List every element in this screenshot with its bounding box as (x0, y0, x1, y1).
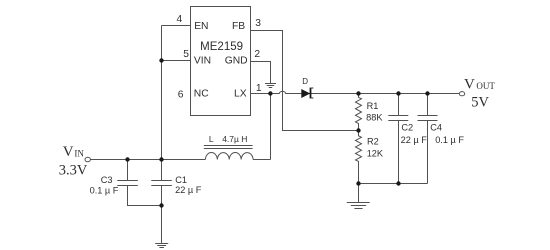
svg-text:3.3V: 3.3V (59, 162, 88, 178)
capacitor C3 plates (117, 180, 138, 182)
capacitor C2 plates (388, 115, 408, 117)
svg-text:0.1 µ F: 0.1 µ F (435, 135, 464, 145)
diode D1 triangle (301, 89, 310, 98)
capacitor C4 top lead (427, 94, 429, 116)
node junction R2 bottom (356, 181, 360, 185)
svg-text:C4: C4 (430, 122, 442, 132)
node junction C3 on rail (125, 157, 129, 161)
svg-text:22 µ F: 22 µ F (401, 135, 428, 145)
wire pin2 GND (251, 62, 271, 84)
ground under R2 (347, 203, 370, 209)
capacitor C2 bottom lead (398, 121, 400, 184)
terminal Vout circle (459, 92, 464, 96)
inductor L core bars (204, 145, 253, 147)
wire pin4 EN (162, 25, 191, 27)
svg-text:LX: LX (234, 89, 247, 100)
svg-text:L: L (209, 134, 214, 144)
wire pin3 FB (251, 31, 359, 131)
svg-text:D: D (302, 77, 308, 86)
svg-text:88K: 88K (366, 112, 383, 122)
node junction R1 top (356, 91, 360, 95)
wire pin5 VIN (162, 60, 191, 62)
ground at pin2 GND (265, 84, 276, 88)
svg-text:VIN: VIN (194, 56, 211, 67)
ground under C1 (155, 244, 168, 248)
node junction C4 top (425, 91, 429, 95)
capacitor C1 bottom lead (161, 186, 163, 244)
capacitor C3 bottom lead (128, 186, 162, 206)
svg-text:C3: C3 (101, 175, 113, 185)
svg-text:5V: 5V (471, 94, 489, 110)
wire rail inductor to LX riser (253, 159, 270, 161)
svg-text:3: 3 (255, 18, 261, 29)
svg-text:R2: R2 (367, 137, 379, 147)
svg-text:C2: C2 (401, 122, 413, 132)
svg-text:ME2159: ME2159 (200, 41, 243, 53)
svg-text:C1: C1 (175, 175, 187, 185)
svg-text:4.7µ H: 4.7µ H (222, 134, 247, 144)
svg-text:0.1 µ F: 0.1 µ F (90, 186, 119, 196)
node junction C2 bottom (396, 181, 400, 185)
inductor L coil (205, 152, 253, 159)
svg-text:1: 1 (256, 83, 262, 94)
wire EN-VIN tie vertical (161, 26, 163, 160)
svg-text:6: 6 (178, 89, 184, 100)
resistor R2 (356, 131, 362, 184)
node junction LX/inductor (268, 91, 272, 95)
node junction C3/C1 bottom (159, 203, 163, 207)
svg-text:FB: FB (232, 21, 245, 32)
capacitor C4 plates (418, 115, 438, 117)
node junction C1 on rail (159, 157, 163, 161)
svg-text:EN: EN (194, 21, 208, 32)
svg-text:GND: GND (225, 56, 248, 67)
svg-text:12K: 12K (367, 148, 384, 158)
svg-text:R1: R1 (367, 101, 379, 111)
resistor R1 (356, 94, 362, 131)
wire LX to inductor riser (270, 94, 272, 160)
capacitor C3 top lead (127, 160, 129, 181)
capacitor C4 bottom lead (427, 121, 429, 184)
svg-text:2: 2 (254, 49, 260, 60)
svg-text:VOUT: VOUT (464, 76, 495, 92)
svg-text:NC: NC (194, 89, 209, 100)
wire VIN input rail (91, 159, 206, 161)
terminal Vin circle (85, 157, 90, 161)
diode D1 cathode ticks (311, 87, 313, 89)
node junction FB divider (356, 128, 360, 132)
capacitor C1 top lead (161, 160, 163, 181)
svg-text:4: 4 (176, 14, 182, 25)
op-amp U1 ME2159 regulator body (191, 7, 251, 116)
svg-text:5: 5 (183, 49, 189, 60)
wire pin1 LX with hop over FB line (251, 91, 460, 93)
diode D1 cathode bar (310, 88, 312, 99)
node junction pin5/EN tie (159, 58, 163, 62)
capacitor C1 plates (151, 180, 172, 182)
capacitor C2 top lead (398, 94, 400, 116)
svg-text:VIN: VIN (63, 144, 85, 160)
svg-text:22 µ F: 22 µ F (175, 185, 202, 195)
wire ground stem (358, 184, 360, 203)
wire output ground rail (359, 183, 428, 185)
node junction C2 top (396, 91, 400, 95)
